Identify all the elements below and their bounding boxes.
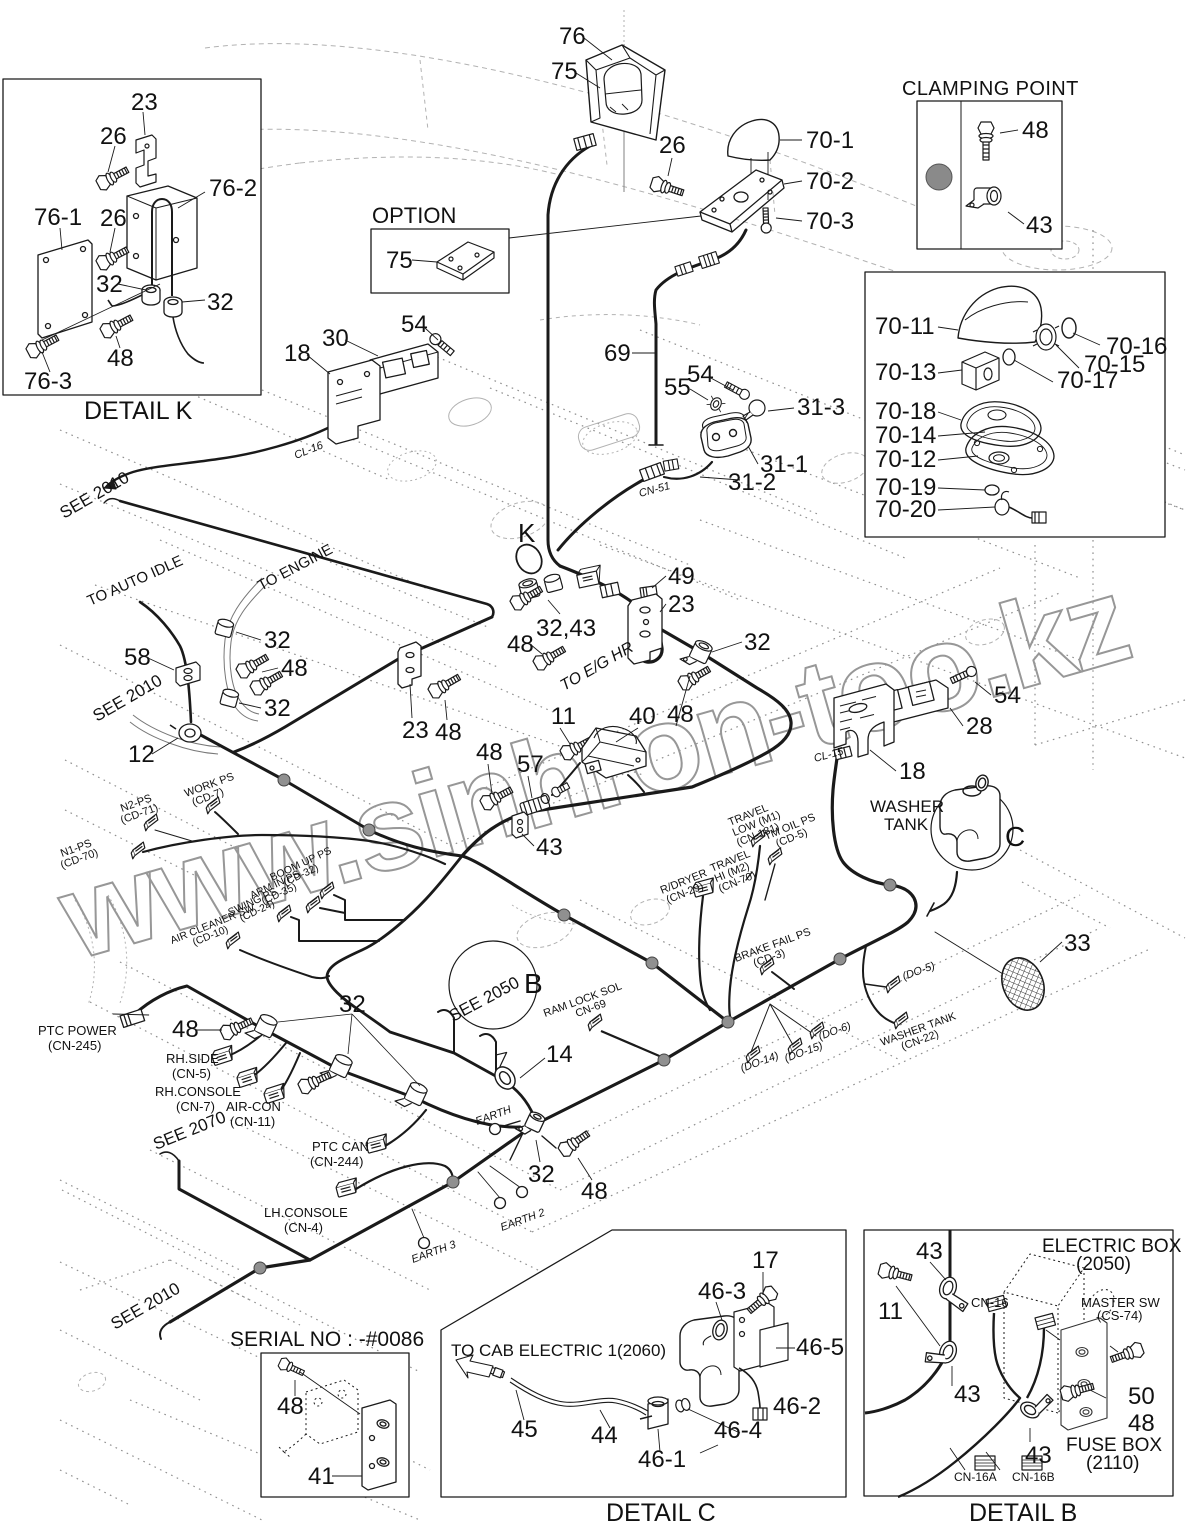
svg-text:69: 69 <box>604 340 631 367</box>
svg-text:OPTION: OPTION <box>372 203 456 228</box>
OPTION box <box>371 229 509 293</box>
screw 17 <box>744 1284 780 1317</box>
AIR-CON connector <box>263 1083 288 1103</box>
bolt 48 near clamp 23 left <box>426 670 463 700</box>
connectors on 69 wire <box>699 252 720 269</box>
DETAIL K box 76-2 <box>127 186 197 280</box>
svg-text:WASHER: WASHER <box>870 797 944 816</box>
washer tank drawing <box>940 774 1000 861</box>
lamp connector <box>574 134 596 151</box>
svg-text:54: 54 <box>401 311 428 338</box>
small inline connector 31-2 <box>663 459 679 471</box>
svg-text:14: 14 <box>546 1041 573 1068</box>
svg-text:46-4: 46-4 <box>714 1417 762 1444</box>
svg-text:58: 58 <box>124 644 151 671</box>
bolt 48 right of 32 clamp <box>676 662 713 692</box>
svg-text:70-1: 70-1 <box>806 127 854 154</box>
arrow TO CAB <box>456 1355 493 1378</box>
TRAVEL HI <box>709 848 761 895</box>
DO-5 tag stub <box>865 984 886 987</box>
svg-text:23: 23 <box>131 89 158 116</box>
svg-text:48: 48 <box>172 1016 199 1043</box>
PTC CAN connector <box>365 1134 390 1153</box>
WORK PS <box>183 771 240 810</box>
DETAIL K grommet 32 a <box>142 285 160 305</box>
SERIAL NO box <box>261 1353 409 1497</box>
svg-text:48: 48 <box>667 701 694 728</box>
svg-text:46-2: 46-2 <box>773 1393 821 1420</box>
fan leaders DO-14 DO-15 DO-6 <box>751 1004 816 1052</box>
bracket 43 below 57 <box>512 812 528 838</box>
70-17 o-ring small <box>1003 349 1015 365</box>
LH.CONSOLE wire <box>356 1163 453 1189</box>
hose 44 <box>510 1378 648 1415</box>
bolt 26 top right <box>649 175 685 200</box>
DETAIL K plate 76-1 <box>38 240 92 338</box>
DETAIL K bolt 76-3 <box>25 331 62 361</box>
thin fan from 32 label to clamps <box>278 1014 420 1086</box>
screw 70-3 <box>761 208 772 233</box>
tags: TRAVEL TM <box>749 830 767 847</box>
DETAIL K grommet 32 b <box>164 297 182 317</box>
bolt 48 at earth <box>556 1127 592 1159</box>
svg-text:57: 57 <box>517 751 544 778</box>
bolt 11 <box>559 733 596 763</box>
svg-text:17: 17 <box>752 1247 779 1274</box>
DETAIL B tags CN-16A CN-16B <box>975 1456 995 1470</box>
svg-text:43: 43 <box>536 834 563 861</box>
arrowhead SEE2010 #1 <box>104 480 116 489</box>
lamp 31-1 <box>701 413 751 458</box>
svg-text:33: 33 <box>1064 930 1091 957</box>
svg-text:46-1: 46-1 <box>638 1446 686 1473</box>
parts box leaders <box>938 327 1100 510</box>
N1/N2/WORK PS wire <box>143 835 445 864</box>
svg-text:(2110): (2110) <box>1086 1453 1140 1474</box>
bracket 18 top <box>328 360 380 444</box>
screw 54 right <box>949 665 978 685</box>
AIR CLEANER SW <box>169 902 261 956</box>
DETAIL K bolt 48 <box>99 311 136 341</box>
svg-text:70-14: 70-14 <box>875 422 936 449</box>
SWING PS <box>226 886 283 928</box>
DETAIL C leaders <box>516 1272 795 1453</box>
svg-text:PTC POWER: PTC POWER <box>38 1023 117 1038</box>
svg-text:TO CAB ELECTRIC 1(2060): TO CAB ELECTRIC 1(2060) <box>451 1341 666 1360</box>
svg-text:32: 32 <box>744 629 771 656</box>
earth leads <box>497 1121 556 1160</box>
svg-text:75: 75 <box>551 58 578 85</box>
tags: N1 N2 WORK <box>129 842 146 859</box>
svg-text:48: 48 <box>435 719 462 746</box>
ARM IN PS <box>248 868 306 911</box>
svg-text:28: 28 <box>966 713 993 740</box>
wire lamp 31 to connector CN-51 <box>664 462 712 479</box>
nozzle 45 <box>481 1363 504 1378</box>
SEE2010 #1 start curl <box>104 499 120 503</box>
svg-text:C: C <box>1005 821 1025 852</box>
DETAIL K clip 23 <box>136 135 156 187</box>
svg-text:76: 76 <box>559 23 586 50</box>
tag DO-5 <box>884 976 902 993</box>
washer pump hook <box>927 903 934 916</box>
svg-text:TANK: TANK <box>884 815 929 834</box>
BOOM UP PS <box>268 845 337 893</box>
32 clamp3 on PTC line <box>395 1077 429 1112</box>
bolt 48 left of 57 <box>479 783 516 813</box>
OPTION leader line to harness <box>509 216 701 238</box>
clamping bolt 48 <box>978 122 994 160</box>
LH.CONSOLE connector <box>335 1178 360 1197</box>
70-15 ring nut <box>1033 324 1059 350</box>
SEE2010 line #1 straight with end hook <box>120 501 493 617</box>
dome 70-1 <box>728 119 779 160</box>
bolt 48 mid PTC <box>297 1067 334 1095</box>
svg-text:26: 26 <box>100 123 127 150</box>
svg-text:18: 18 <box>899 758 926 785</box>
OPTION plate 75 <box>437 242 494 280</box>
bulb 31-3 <box>743 400 765 420</box>
clamp 57 <box>519 792 552 816</box>
WORK PS stub <box>215 812 238 834</box>
B circle <box>449 941 537 1029</box>
AIR-CON stub <box>278 1053 300 1094</box>
14 clamp <box>484 1049 525 1093</box>
DETAIL B electric box dotted <box>1004 1254 1084 1413</box>
svg-text:SERIAL NO : -#0086: SERIAL NO : -#0086 <box>230 1328 424 1351</box>
70-20 grommet with pigtail <box>995 491 1046 523</box>
main harness: bracket 23 to right loop and long diagonal to vertex <box>462 630 916 1022</box>
69 wire end serif <box>649 444 663 446</box>
N2-PS <box>115 792 160 827</box>
svg-text:31-3: 31-3 <box>797 394 845 421</box>
TM OIL PS <box>763 811 822 853</box>
TO AUTO IDLE black wire <box>140 602 191 722</box>
hairpin return wire from hook to 12 cluster <box>234 617 492 752</box>
DETAIL C tank 46-2 <box>680 1316 739 1406</box>
clamping clamp 43 <box>966 187 1001 208</box>
DETAIL B wire CN-16 <box>898 1313 1020 1497</box>
svg-text:(CN-5): (CN-5) <box>172 1066 211 1081</box>
bolts 48 mid-left pair <box>234 650 271 680</box>
SEE2050 hooks <box>438 1010 496 1070</box>
PTC harness line <box>135 986 520 1127</box>
tag 49 <box>640 586 658 604</box>
S-branch from vertex down through 14 clamp to bottom line <box>327 856 536 1122</box>
washer pump wire <box>930 872 957 911</box>
svg-text:48: 48 <box>581 1178 608 1205</box>
TRAVEL wires <box>729 846 760 1016</box>
tag BRAKE FAIL <box>758 958 776 975</box>
svg-text:32,43: 32,43 <box>536 615 596 642</box>
clamp 23 far left <box>398 642 421 688</box>
svg-text:48: 48 <box>107 345 134 372</box>
leader lines top lamp <box>576 38 802 221</box>
TO ENGINE / AUTO IDLE gray tubes <box>224 578 268 721</box>
CL-16 wire from switch 30 to SEE 2010 arrow <box>107 426 332 486</box>
bottom line SEE2010 to vertex <box>170 1022 728 1322</box>
svg-text:44: 44 <box>591 1422 618 1449</box>
AIR CLEANER SW wire <box>240 950 329 978</box>
DETAIL K leaders <box>42 112 205 372</box>
light ellipses / pods <box>445 393 495 431</box>
bracket 46-5 <box>734 1303 788 1371</box>
svg-text:CN-16A: CN-16A <box>954 1470 997 1484</box>
svg-text:DETAIL B: DETAIL B <box>969 1499 1077 1527</box>
svg-text:41: 41 <box>308 1463 335 1490</box>
K ellipse <box>511 540 546 578</box>
svg-text:AIR-CON: AIR-CON <box>226 1099 281 1114</box>
R/DRYER wire <box>699 896 710 1010</box>
BRAKE FAIL PS <box>733 926 816 975</box>
svg-text:LH.CONSOLE: LH.CONSOLE <box>264 1205 348 1220</box>
wire CN-51 down to K cluster <box>558 480 643 550</box>
main harness: K cluster, E/G HR U-turn at bracket 23 <box>560 566 662 662</box>
serial ghost relay dotted <box>278 1380 358 1457</box>
gray junction dots <box>278 774 290 786</box>
svg-text:49: 49 <box>668 563 695 590</box>
svg-text:18: 18 <box>284 340 311 367</box>
serial plate 41 <box>362 1400 396 1490</box>
DETAIL K bolt 26 upper <box>95 163 132 193</box>
bolt 48 below K <box>531 642 568 672</box>
cap 46-3 <box>703 1317 730 1350</box>
earth leader lines thin <box>412 1166 521 1238</box>
svg-text:26: 26 <box>659 132 686 159</box>
harness layer <box>104 146 1013 1339</box>
RH.SIDE stub <box>228 1032 265 1056</box>
svg-text:(CN-11): (CN-11) <box>230 1114 275 1129</box>
tags: BOOM ARM SWING AIRCLEANER <box>318 882 336 899</box>
70-16 o-ring <box>1062 318 1076 338</box>
bolts at K cluster 32,43 <box>508 582 545 612</box>
tag RAM LOCK SOL <box>586 1014 604 1031</box>
32 clamp2 on PTC line <box>320 1049 354 1084</box>
svg-text:43: 43 <box>1025 1442 1052 1469</box>
plate 70-2 <box>700 170 784 232</box>
svg-text:11: 11 <box>551 703 576 730</box>
svg-text:40: 40 <box>629 703 656 730</box>
svg-text:70-17: 70-17 <box>1057 367 1118 394</box>
connector CN-51 <box>640 463 665 482</box>
DETAIL B bolt 11 <box>877 1261 913 1285</box>
serial 48 leader <box>295 1372 360 1414</box>
BRAKE FAIL stub <box>772 972 794 989</box>
DETAIL C box <box>441 1230 846 1497</box>
K cluster: grommets 32,43 and connectors <box>518 577 540 600</box>
bracket 58 <box>176 662 200 686</box>
RH.CONSOLE connector <box>236 1067 261 1087</box>
svg-text:23: 23 <box>402 717 429 744</box>
boom upper outline dashed <box>205 44 945 218</box>
svg-text:76-2: 76-2 <box>209 175 257 202</box>
32 clamps on engine tube <box>215 618 235 638</box>
relay 40 link to main <box>628 775 644 792</box>
33 mirror ellipse hatched <box>994 951 1051 1016</box>
N1-PS <box>55 837 100 872</box>
SEE2070 hook <box>160 1152 179 1161</box>
svg-text:45: 45 <box>511 1416 538 1443</box>
grommet 46-4 <box>675 1398 692 1413</box>
DETAIL B harness wire vertical <box>865 1230 950 1413</box>
DETAIL K bolt 26 lower <box>95 243 132 273</box>
svg-text:11: 11 <box>878 1298 903 1325</box>
svg-text:46-5: 46-5 <box>796 1334 844 1361</box>
svg-text:54: 54 <box>994 682 1021 709</box>
WASHER TANK CN-22 <box>879 1010 962 1059</box>
svg-text:43: 43 <box>954 1381 981 1408</box>
svg-text:(2050): (2050) <box>1076 1254 1131 1275</box>
DETAIL B clamp 43 lower <box>923 1335 959 1371</box>
left feeder from 12 cluster to vertex <box>197 733 462 856</box>
DETAIL K pigtails <box>108 295 204 363</box>
svg-text:70-18: 70-18 <box>875 398 936 425</box>
dome 70-1 alignment lines <box>751 152 768 200</box>
DETAIL B screw 50 <box>1109 1341 1145 1367</box>
svg-text:32: 32 <box>339 991 366 1018</box>
svg-text:31-2: 31-2 <box>728 469 776 496</box>
N2-PS stub <box>155 830 192 841</box>
svg-text:48: 48 <box>277 1393 304 1420</box>
bracket 18 right <box>834 684 894 757</box>
svg-text:(CN-244): (CN-244) <box>310 1154 363 1169</box>
RAM LOCK leader <box>601 1031 664 1058</box>
SEE2010 hook bottom <box>160 1322 170 1339</box>
wire 69 from plate 70-2 down to lamp 31 <box>654 230 746 444</box>
tags DO-14 DO-15 DO-6 <box>744 1046 762 1063</box>
pump 46-1 <box>640 1397 668 1429</box>
svg-text:26: 26 <box>100 205 127 232</box>
DETAIL B fuse box <box>1061 1289 1114 1430</box>
svg-text:DETAIL C: DETAIL C <box>606 1499 716 1527</box>
serial bolt 48 <box>277 1356 306 1379</box>
relay 40 wire to 57 cluster <box>552 763 580 795</box>
washer C circle <box>931 788 1013 870</box>
roof lamp housing 76 <box>586 45 665 140</box>
svg-text:46-3: 46-3 <box>698 1278 746 1305</box>
32 clamp1 on PTC line <box>245 1009 279 1044</box>
svg-text:32: 32 <box>264 627 291 654</box>
DETAIL B wire CN-16B <box>1027 1327 1044 1398</box>
connector 46-2 wire <box>739 1368 760 1408</box>
32 clamp on main (700,655) <box>680 635 714 670</box>
70-11 dome <box>958 286 1042 343</box>
svg-text:75: 75 <box>386 247 413 274</box>
svg-text:32: 32 <box>207 289 234 316</box>
R/DRYER <box>659 867 713 907</box>
svg-text:48: 48 <box>281 655 308 682</box>
DETAIL K box <box>3 79 261 395</box>
svg-text:RH.SIDE: RH.SIDE <box>166 1051 219 1066</box>
svg-text:70-2: 70-2 <box>806 168 854 195</box>
svg-text:43: 43 <box>916 1238 943 1265</box>
svg-text:CLAMPING POINT: CLAMPING POINT <box>902 78 1079 100</box>
component 28 (wiper motor pair) <box>874 680 948 724</box>
svg-text:70-11: 70-11 <box>875 313 935 340</box>
ring 12 <box>170 724 201 742</box>
RAM LOCK SOL <box>542 980 627 1030</box>
70-19 o-ring <box>985 485 999 495</box>
70-14 / 70-12 plate <box>966 426 1054 474</box>
RH.CONSOLE stub <box>250 1043 286 1078</box>
svg-text:43: 43 <box>1026 212 1053 239</box>
platform mid dotted <box>60 230 1185 1520</box>
bolt 48 left PTC <box>219 1013 256 1041</box>
DETAIL B clamp 43 at fuse box <box>1018 1386 1054 1424</box>
svg-text:CN-16: CN-16 <box>971 1295 1009 1310</box>
earth open circles <box>490 1124 501 1135</box>
svg-text:23: 23 <box>668 591 695 618</box>
screw 54 top <box>428 331 456 357</box>
svg-text:70-13: 70-13 <box>875 359 936 386</box>
DETAIL B tag CN-16 <box>986 1295 1006 1311</box>
svg-text:70-12: 70-12 <box>875 446 936 473</box>
PTC POWER tag <box>113 1004 150 1030</box>
SEE2070 branch <box>179 1161 310 1260</box>
DETAIL B clamp 43 upper <box>935 1275 975 1312</box>
svg-text:48: 48 <box>507 631 534 658</box>
svg-text:32: 32 <box>528 1161 555 1188</box>
staircase wire BOOM/ARM/SWING <box>291 895 405 941</box>
svg-text:CN-16B: CN-16B <box>1012 1470 1055 1484</box>
svg-text:K: K <box>518 518 536 548</box>
70-13 socket <box>962 352 999 390</box>
connector CL-15 <box>834 746 852 760</box>
70-18 gasket <box>961 402 1041 447</box>
leader to 33 <box>935 932 1003 974</box>
DETAIL B tag CN-16B top <box>1035 1313 1055 1329</box>
svg-text:48: 48 <box>476 739 503 766</box>
svg-text:B: B <box>524 968 543 999</box>
DETAIL B leaders <box>896 1262 1118 1470</box>
tag CN-22 <box>892 1012 910 1029</box>
bolts 32,43 small pair near cluster <box>550 781 571 798</box>
svg-text:(CS-74): (CS-74) <box>1097 1308 1143 1323</box>
DETAIL B box <box>864 1230 1173 1496</box>
wire from roof lamp 75/76 down to K cluster <box>548 146 590 566</box>
screws 54 55 at lamp <box>724 380 752 401</box>
svg-text:50: 50 <box>1128 1383 1155 1410</box>
svg-text:32: 32 <box>264 695 291 722</box>
RH.SIDE connector <box>211 1045 236 1065</box>
svg-text:(CN-4): (CN-4) <box>284 1220 323 1235</box>
svg-text:76-1: 76-1 <box>34 204 82 231</box>
svg-text:(CN-245): (CN-245) <box>48 1038 101 1053</box>
switch 30 assembly <box>370 344 438 394</box>
parts box 70-xx <box>865 272 1165 537</box>
svg-text:70-3: 70-3 <box>806 208 854 235</box>
svg-text:48: 48 <box>1128 1410 1155 1437</box>
PTC CAN wire <box>385 1110 426 1146</box>
CLAMPING POINT box <box>917 101 1062 249</box>
bracket 23 right <box>628 594 662 664</box>
svg-text:DETAIL K: DETAIL K <box>84 397 193 425</box>
svg-text:54: 54 <box>687 361 714 388</box>
svg-text:76-3: 76-3 <box>24 368 72 395</box>
clamping gray circle <box>926 164 952 190</box>
svg-text:RH.CONSOLE: RH.CONSOLE <box>155 1084 241 1099</box>
svg-text:48: 48 <box>1022 117 1049 144</box>
svg-text:70-20: 70-20 <box>875 496 936 523</box>
R/DRYER connector <box>692 878 717 897</box>
DETAIL K antenna loop wire <box>152 199 172 296</box>
DO-5 / CN-22 branch <box>863 946 897 1024</box>
svg-text:32: 32 <box>96 271 123 298</box>
32 earth stud on bottom line <box>515 1107 546 1139</box>
svg-text:30: 30 <box>322 325 349 352</box>
svg-text:12: 12 <box>128 741 155 768</box>
svg-text:55: 55 <box>664 374 691 401</box>
